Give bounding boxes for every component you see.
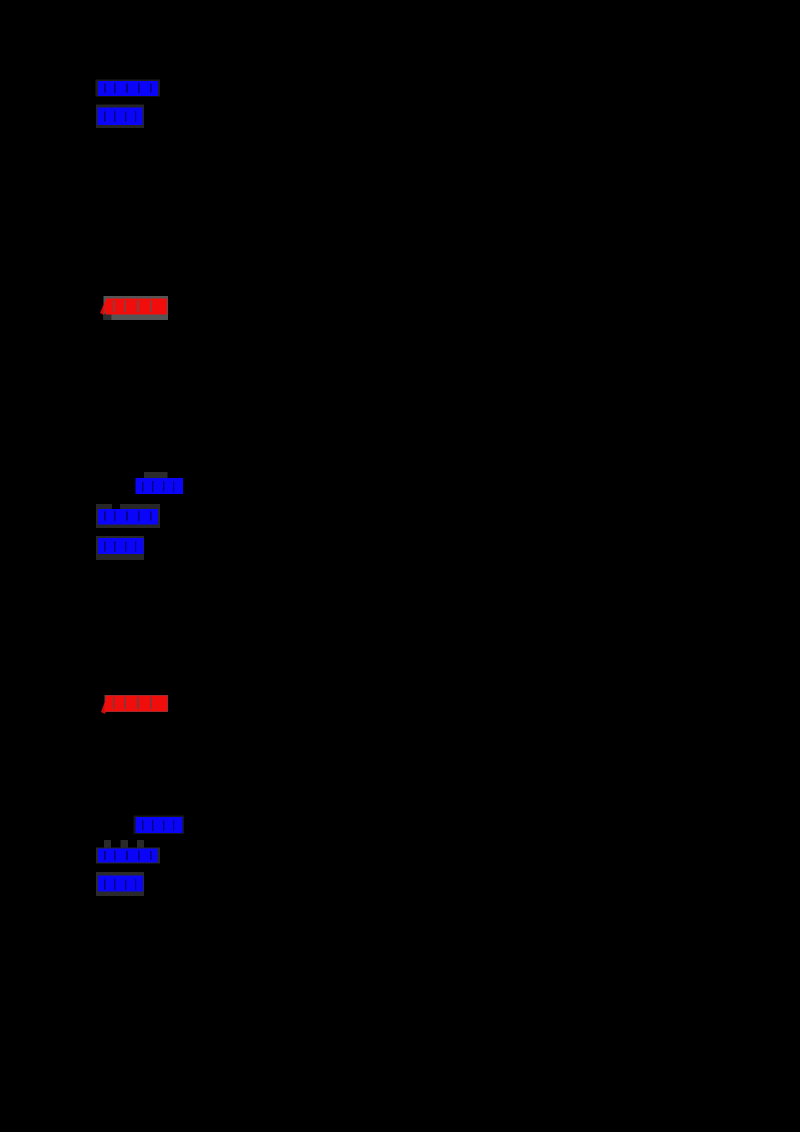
group 2 : link box C — [96, 536, 144, 560]
group 2 : small gray tab — [144, 472, 168, 478]
group 3 : blue link text C — [98, 876, 143, 892]
group 1 : link box 1 — [96, 80, 161, 97]
group 1 : link box 2 — [96, 105, 144, 129]
group 1 : blue link text 1 — [98, 81, 158, 96]
group 3 : blue link text A — [136, 817, 183, 833]
group 2 : red highlight box — [105, 695, 169, 712]
group 3 : link box C — [96, 872, 144, 896]
group 1 : red highlight box — [104, 296, 169, 320]
group 3 : gray tabs above B — [104, 840, 111, 848]
group 1 : blue link text 2 — [98, 108, 143, 126]
group 2 : blue link text A — [136, 478, 184, 494]
group 2 : blue link text B — [98, 509, 158, 525]
group 3 : link box B — [96, 848, 160, 864]
group 3 : blue link text B — [98, 849, 158, 863]
group 1 : red text — [106, 299, 167, 315]
group 2 : red text — [106, 696, 168, 712]
group 2 : link box B — [96, 504, 160, 528]
group 3 : faint box A — [134, 816, 185, 835]
group 2 : blue link text C — [98, 538, 144, 554]
